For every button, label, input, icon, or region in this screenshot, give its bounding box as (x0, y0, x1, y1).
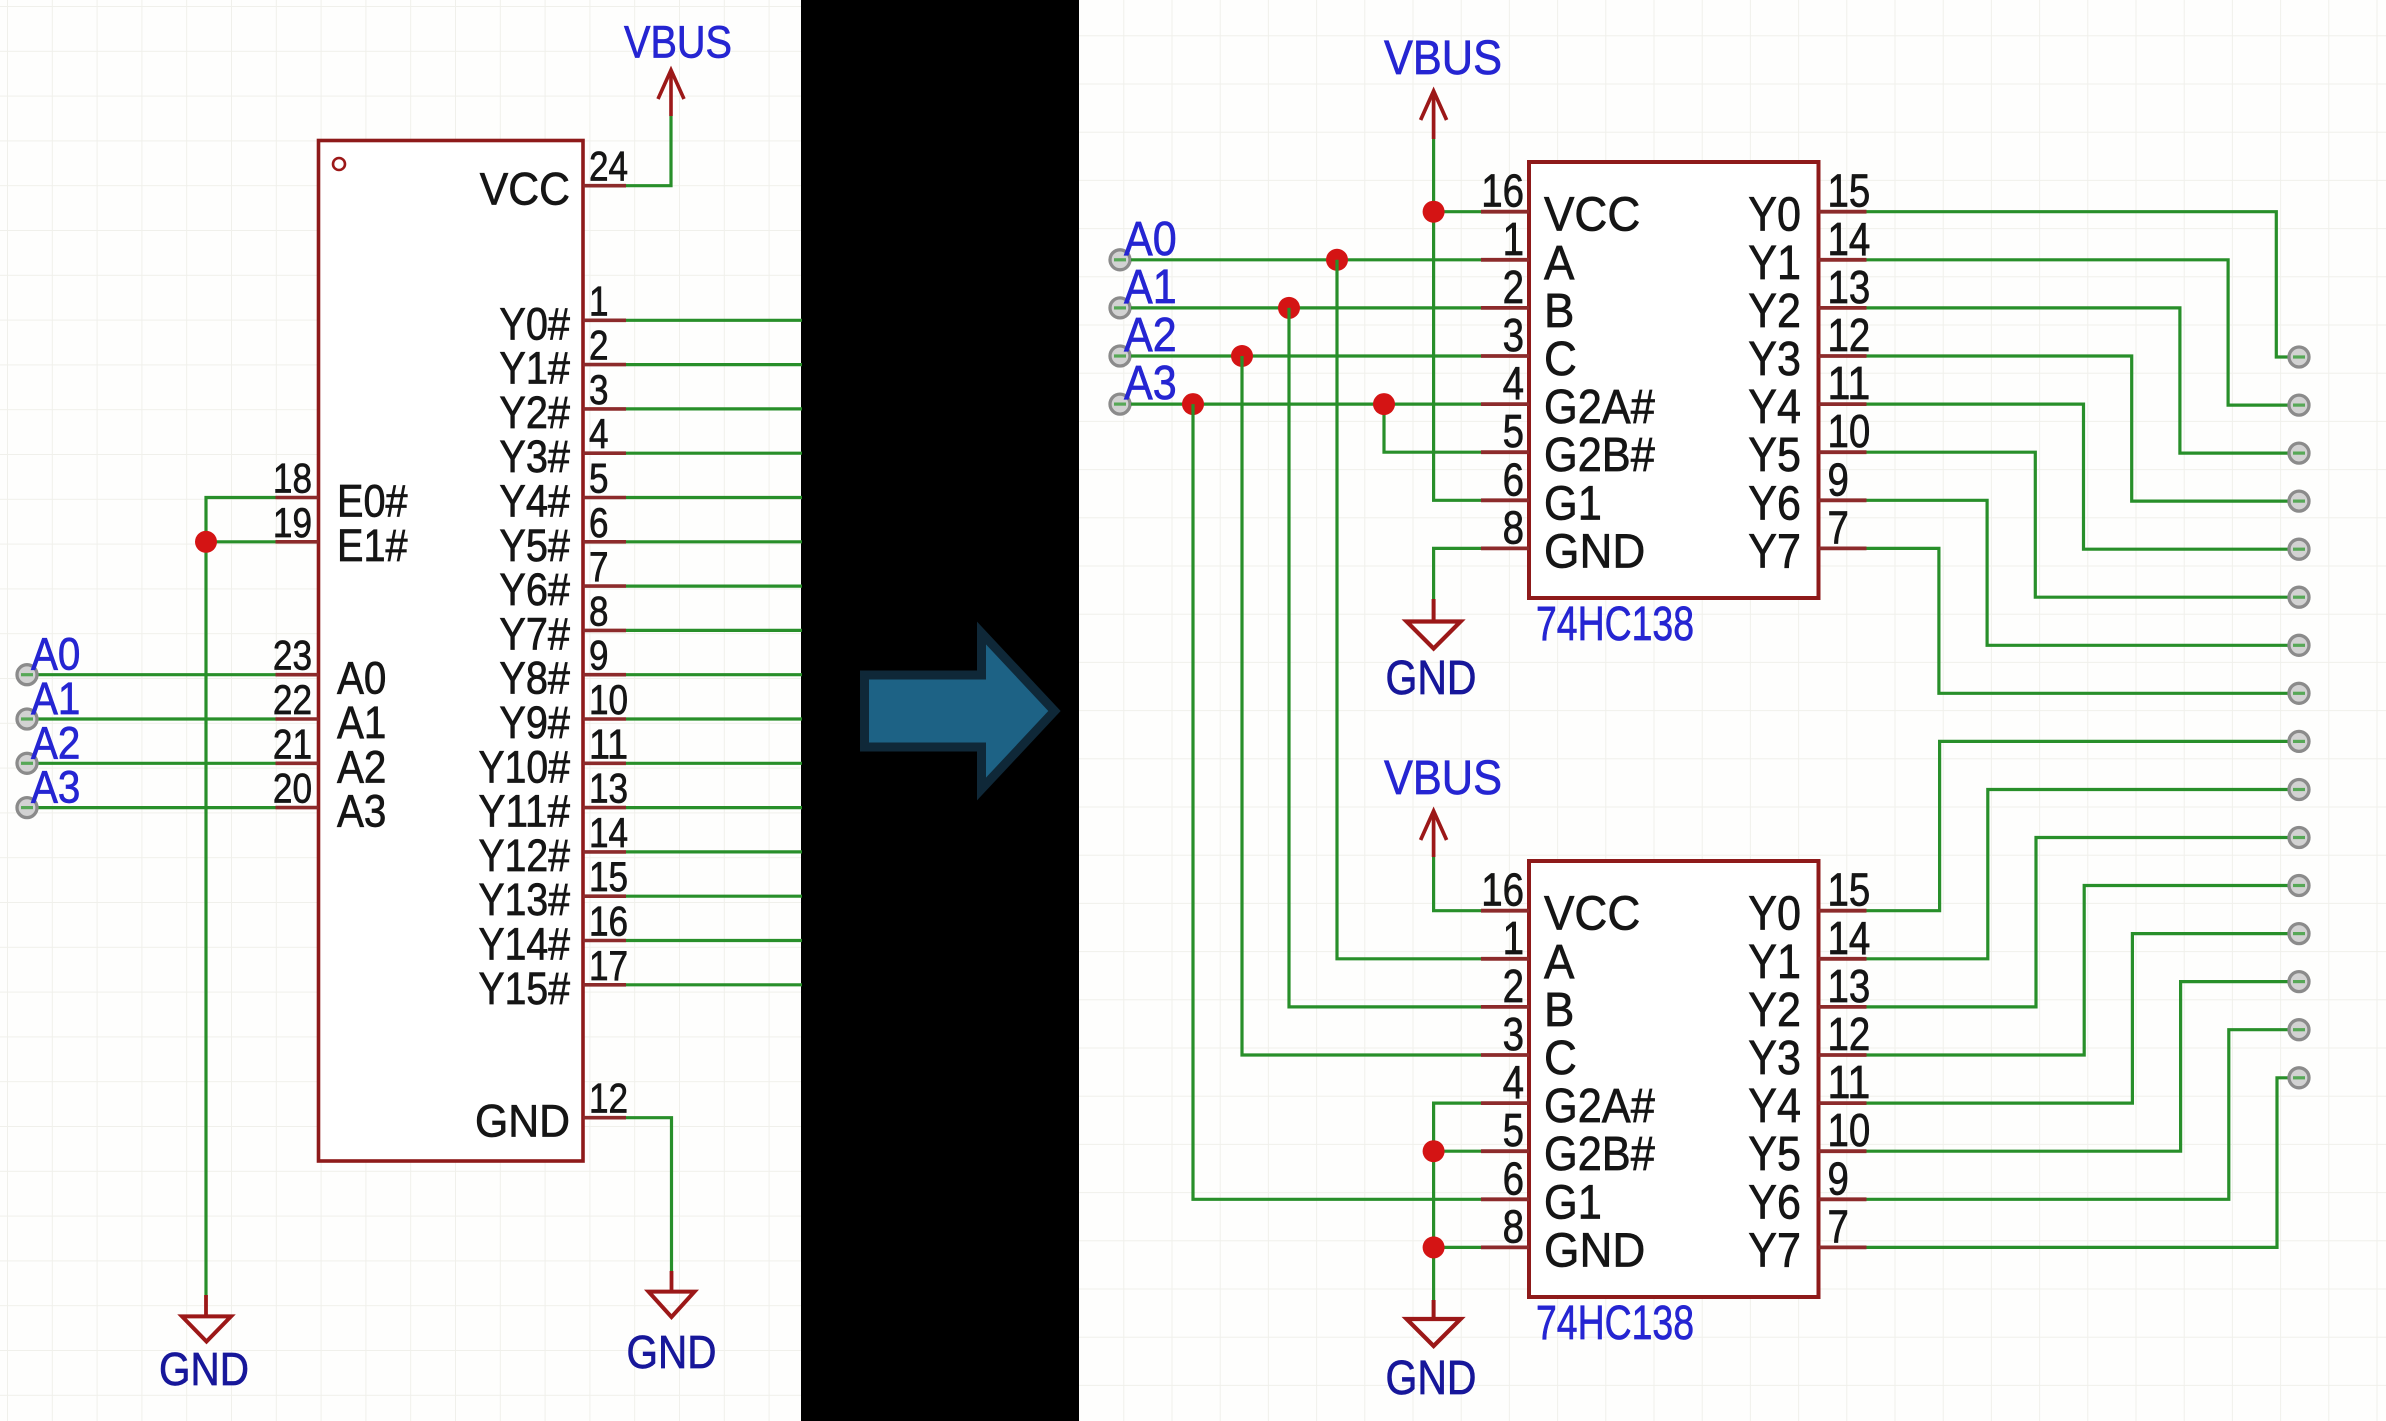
wire A3 (right) (1131, 403, 1481, 406)
U3 pin 2 B (1481, 960, 1574, 1037)
wire U2 Y7 output (1867, 548, 2289, 693)
svg-text:2: 2 (1503, 261, 1524, 313)
terminal U2 Y7 (2289, 683, 2309, 703)
svg-text:20: 20 (273, 765, 312, 812)
U2 pin 10 Y5 (1748, 405, 1870, 482)
svg-text:G2B#: G2B# (1544, 1128, 1655, 1181)
pin 9 Y8# (499, 632, 626, 704)
wire Y9# (626, 717, 802, 720)
wire Y11# (626, 806, 802, 809)
terminal U3 Y0 (2289, 731, 2309, 751)
terminal U3 Y4 (2289, 924, 2309, 944)
wire A0 to U3 (1337, 260, 1481, 959)
svg-text:13: 13 (1828, 960, 1871, 1012)
svg-text:10: 10 (1828, 405, 1871, 457)
U3 pin 10 Y5 (1748, 1104, 1870, 1181)
svg-text:VBUS: VBUS (624, 17, 732, 68)
wire A0 (right) (1131, 258, 1481, 261)
U3 pin 1 A (1481, 912, 1574, 989)
wire U3 Y2 output (1867, 838, 2289, 1007)
svg-text:Y3: Y3 (1748, 1032, 1801, 1085)
svg-text:24: 24 (589, 143, 628, 190)
svg-text:Y0: Y0 (1748, 888, 1801, 941)
U2 pin 15 Y0 (1748, 165, 1870, 242)
pin 17 Y15# (479, 942, 629, 1014)
svg-text:7: 7 (589, 543, 609, 590)
U2 pin 4 G2A# (1481, 357, 1655, 434)
svg-text:7: 7 (1828, 1200, 1849, 1252)
svg-text:Y7: Y7 (1748, 1224, 1801, 1277)
svg-text:2: 2 (1503, 960, 1524, 1012)
terminal U3 Y7 (2289, 1068, 2309, 1088)
wire A0 (left) (38, 673, 276, 676)
wire U3 Y4 output (1867, 934, 2289, 1104)
svg-text:14: 14 (589, 809, 628, 856)
terminal A1 (left) (17, 709, 37, 729)
svg-text:E1#: E1# (337, 520, 408, 571)
svg-text:1: 1 (1503, 912, 1524, 964)
wire U3 Y6 output (1867, 1030, 2289, 1200)
IC U2 74HC138 body (1529, 162, 1819, 598)
terminal A2 (left) (17, 753, 37, 773)
junction A0 (1326, 249, 1348, 271)
power symbol VBUS (top) (1384, 32, 1502, 139)
U2 pin 1 A (1481, 213, 1574, 290)
power symbol VBUS (624, 17, 732, 117)
power symbol VBUS (bottom) (1384, 752, 1502, 857)
junction A2 (1231, 345, 1253, 367)
wire A1 (left) (38, 717, 276, 720)
terminal U3 Y5 (2289, 972, 2309, 992)
svg-text:5: 5 (1503, 405, 1524, 457)
svg-text:74HC138: 74HC138 (1536, 1297, 1694, 1350)
wire Y7# (626, 629, 802, 632)
svg-text:11: 11 (589, 720, 628, 767)
svg-text:15: 15 (589, 853, 628, 900)
terminal U3 Y1 (2289, 780, 2309, 800)
wire A2 (right) (1131, 354, 1481, 357)
terminal A2 (right) (1110, 346, 1130, 366)
svg-text:A: A (1544, 237, 1574, 290)
terminal U3 Y2 (2289, 828, 2309, 848)
svg-text:4: 4 (1503, 1056, 1524, 1108)
ground symbol GND (top) (1386, 599, 1477, 705)
wire Y1# (626, 363, 802, 366)
svg-text:8: 8 (589, 587, 609, 634)
wire U2 Y1 output (1867, 260, 2289, 405)
terminal A0 (left) (17, 665, 37, 685)
wire U3 Y5 output (1867, 982, 2289, 1152)
svg-text:10: 10 (1828, 1104, 1871, 1156)
U2 pin 2 B (1481, 261, 1574, 338)
wire Y12# (626, 850, 802, 853)
wire U2 Y3 output (1867, 356, 2289, 501)
wire A1 (right) (1131, 306, 1481, 309)
junction U3 G2B# (1423, 1140, 1445, 1162)
pin 18 E0# (273, 455, 408, 527)
pin 6 Y5# (499, 499, 626, 571)
wire U3 Y3 output (1867, 886, 2289, 1056)
svg-text:18: 18 (273, 455, 312, 502)
wire Y8# (626, 673, 802, 676)
svg-text:13: 13 (589, 765, 628, 812)
svg-text:8: 8 (1503, 501, 1524, 553)
svg-text:A2: A2 (1124, 309, 1177, 362)
U2 pin 12 Y3 (1748, 309, 1870, 386)
U2 pin 14 Y1 (1748, 213, 1870, 290)
pin 3 Y2# (499, 366, 626, 438)
svg-text:A3: A3 (337, 786, 386, 837)
U3 pin 7 Y7 (1748, 1200, 1866, 1277)
U3 pin 5 G2B# (1481, 1104, 1655, 1181)
wire E1# (206, 540, 276, 543)
U3 pin 9 Y6 (1748, 1152, 1866, 1229)
U3 pin 13 Y2 (1748, 960, 1870, 1037)
wire Y3# (626, 452, 802, 455)
wire U2 Y0 output (1867, 212, 2289, 357)
pin 7 Y6# (499, 543, 626, 615)
wire E0# to ground rail (206, 498, 276, 1298)
wire VBUS to U2 VCC and G1 (1434, 139, 1481, 500)
svg-text:14: 14 (1828, 912, 1871, 964)
pin 11 Y10# (479, 720, 629, 792)
U2 pin 7 Y7 (1748, 501, 1866, 578)
pin 21 A2 (273, 720, 387, 792)
U3 pin 3 C (1481, 1008, 1577, 1085)
wire Y5# (626, 540, 802, 543)
svg-text:Y6: Y6 (1748, 1176, 1801, 1229)
separator band (801, 0, 1079, 1421)
wire U3 Y0 output (1867, 741, 2289, 910)
U3 pin 15 Y0 (1748, 864, 1870, 941)
terminal U2 Y1 (2289, 395, 2309, 415)
svg-text:VBUS: VBUS (1384, 752, 1502, 805)
svg-text:GND: GND (627, 1326, 717, 1378)
terminal U2 Y4 (2289, 539, 2309, 559)
junction A1 (1278, 297, 1300, 319)
pin 15 Y13# (479, 853, 629, 925)
svg-text:9: 9 (1828, 453, 1849, 505)
wire Y4# (626, 496, 802, 499)
svg-text:5: 5 (1503, 1104, 1524, 1156)
ground symbol GND (bottom) (1386, 1300, 1477, 1405)
svg-text:A0: A0 (1124, 213, 1177, 266)
pin 13 Y11# (479, 765, 629, 837)
terminal A3 (left) (17, 798, 37, 818)
svg-text:G2B#: G2B# (1544, 429, 1655, 482)
U3 pin 16 VCC (1481, 864, 1640, 941)
svg-text:13: 13 (1828, 261, 1871, 313)
junction VBUS/VCC (1423, 201, 1445, 223)
wire A3 (left) (38, 806, 276, 809)
svg-text:16: 16 (1481, 864, 1524, 916)
wire U2 Y2 output (1867, 308, 2289, 453)
pin 14 Y12# (479, 809, 629, 881)
svg-text:Y3: Y3 (1748, 333, 1801, 386)
svg-text:6: 6 (1503, 453, 1524, 505)
svg-text:GND: GND (475, 1096, 570, 1147)
wire U3 G2A#/G2B#/GND to ground (1434, 1103, 1481, 1300)
terminal U2 Y6 (2289, 635, 2309, 655)
svg-text:Y4: Y4 (1748, 381, 1801, 434)
wire Y2# (626, 407, 802, 410)
svg-text:16: 16 (589, 898, 628, 945)
wire U3 Y7 output (1867, 1078, 2289, 1248)
junction U3 GND (1423, 1236, 1445, 1258)
svg-text:12: 12 (1828, 309, 1871, 361)
terminal A1 (right) (1110, 298, 1130, 318)
terminal U3 Y6 (2289, 1020, 2309, 1040)
svg-text:3: 3 (1503, 1008, 1524, 1060)
wire U2 G2B# to A3 (1384, 404, 1481, 452)
svg-text:GND: GND (1386, 652, 1477, 705)
wire VCC to VBUS (626, 116, 671, 186)
svg-text:A3: A3 (1124, 357, 1177, 410)
svg-text:2: 2 (589, 322, 609, 369)
junction E1# (195, 531, 217, 553)
terminal A0 (right) (1110, 250, 1130, 270)
svg-text:6: 6 (1503, 1152, 1524, 1204)
svg-text:23: 23 (273, 632, 312, 679)
pin 22 A1 (273, 676, 387, 748)
svg-text:16: 16 (1481, 165, 1524, 217)
svg-text:GND: GND (1386, 1352, 1477, 1405)
svg-text:14: 14 (1828, 213, 1871, 265)
U3 pin 12 Y3 (1748, 1008, 1870, 1085)
pin 2 Y1# (499, 322, 626, 394)
wire U2 Y6 output (1867, 500, 2289, 645)
svg-text:Y2: Y2 (1748, 984, 1801, 1037)
U2 pin 8 GND (1481, 501, 1645, 578)
svg-text:Y5: Y5 (1748, 429, 1801, 482)
svg-text:G2A#: G2A# (1544, 1080, 1655, 1133)
wire A2 to U3 (1242, 356, 1481, 1055)
svg-text:7: 7 (1828, 501, 1849, 553)
pin 24 VCC (480, 143, 628, 215)
pin 19 E1# (273, 499, 408, 571)
svg-text:Y1: Y1 (1748, 237, 1801, 290)
svg-text:12: 12 (589, 1075, 628, 1122)
svg-text:VCC: VCC (1544, 189, 1640, 242)
svg-text:21: 21 (273, 720, 312, 767)
svg-text:C: C (1544, 1032, 1577, 1085)
svg-text:G1: G1 (1544, 1176, 1602, 1229)
U3 pin 4 G2A# (1481, 1056, 1655, 1133)
svg-text:1: 1 (589, 277, 609, 324)
svg-text:B: B (1544, 285, 1574, 338)
IC U3 74HC138 body (1529, 861, 1819, 1297)
pin 20 A3 (273, 765, 387, 837)
U2 pin 11 Y4 (1748, 357, 1870, 434)
svg-text:10: 10 (589, 676, 628, 723)
wire U2 Y5 output (1867, 452, 2289, 597)
svg-text:GND: GND (159, 1343, 249, 1395)
wire VBUS to U3 VCC (1434, 857, 1481, 911)
pin 10 Y9# (499, 676, 628, 748)
wire Y10# (626, 762, 802, 765)
terminal U2 Y0 (2289, 347, 2309, 367)
wire U2 GND pin 8 (1434, 548, 1481, 599)
svg-text:Y1: Y1 (1748, 936, 1801, 989)
pin 16 Y14# (479, 898, 629, 970)
svg-text:Y2: Y2 (1748, 285, 1801, 338)
terminal U3 Y3 (2289, 876, 2309, 896)
svg-text:8: 8 (1503, 1200, 1524, 1252)
svg-text:A1: A1 (1124, 261, 1177, 314)
svg-text:12: 12 (1828, 1008, 1871, 1060)
wire Y14# (626, 939, 802, 942)
U2 pin 16 VCC (1481, 165, 1640, 242)
svg-text:A: A (1544, 936, 1574, 989)
svg-text:22: 22 (273, 676, 312, 723)
svg-text:3: 3 (1503, 309, 1524, 361)
U3 pin 11 Y4 (1748, 1056, 1870, 1133)
svg-text:Y15#: Y15# (479, 963, 571, 1014)
svg-text:1: 1 (1503, 213, 1524, 265)
U2 pin 5 G2B# (1481, 405, 1655, 482)
svg-text:17: 17 (589, 942, 628, 989)
svg-text:G2A#: G2A# (1544, 381, 1655, 434)
ground symbol GND (right of U1) (627, 1271, 717, 1378)
svg-text:11: 11 (1828, 357, 1871, 409)
wire Y6# (626, 584, 802, 587)
svg-text:3: 3 (589, 366, 609, 413)
wire U2 Y4 output (1867, 404, 2289, 549)
svg-text:15: 15 (1828, 165, 1871, 217)
svg-text:A3: A3 (31, 762, 80, 813)
terminal U2 Y5 (2289, 587, 2309, 607)
svg-text:B: B (1544, 984, 1574, 1037)
ground symbol GND (bottom left) (159, 1295, 249, 1395)
svg-text:Y7: Y7 (1748, 525, 1801, 578)
svg-text:4: 4 (589, 410, 609, 457)
wire A1 to U3 (1289, 308, 1481, 1007)
svg-text:74HC138: 74HC138 (1536, 598, 1694, 651)
svg-text:VCC: VCC (1544, 888, 1640, 941)
svg-text:5: 5 (589, 455, 609, 502)
U2 pin 3 C (1481, 309, 1577, 386)
transition arrow (865, 633, 1055, 789)
pin 4 Y3# (499, 410, 626, 482)
wire Y15# (626, 983, 802, 986)
svg-text:GND: GND (1544, 525, 1645, 578)
wire Y0# (626, 319, 802, 322)
wire GND pin 12 (626, 1118, 672, 1271)
svg-text:9: 9 (589, 632, 609, 679)
svg-text:G1: G1 (1544, 477, 1602, 530)
svg-text:19: 19 (273, 499, 312, 546)
IC U1 24-pin 4-to-16 line decoder body (319, 141, 584, 1162)
wire A3 to U3 (1193, 404, 1481, 1199)
U3 pin 8 GND (1481, 1200, 1645, 1277)
terminal U2 Y3 (2289, 491, 2309, 511)
wire Y13# (626, 895, 802, 898)
U2 pin 9 Y6 (1748, 453, 1866, 530)
svg-text:11: 11 (1828, 1056, 1871, 1108)
U3 pin 14 Y1 (1748, 912, 1870, 989)
pin 23 A0 (273, 632, 387, 704)
terminal A3 (right) (1110, 394, 1130, 414)
svg-text:C: C (1544, 333, 1577, 386)
svg-text:VBUS: VBUS (1384, 32, 1502, 85)
svg-text:VCC: VCC (480, 164, 570, 215)
wire A2 (left) (38, 762, 276, 765)
wire U3 Y1 output (1867, 790, 2289, 959)
U2 pin 6 G1 (1481, 453, 1602, 530)
pin 1 Y0# (499, 277, 626, 349)
svg-text:Y6: Y6 (1748, 477, 1801, 530)
svg-text:15: 15 (1828, 864, 1871, 916)
pin 5 Y4# (499, 455, 626, 527)
svg-text:Y0: Y0 (1748, 189, 1801, 242)
junction A3 (1182, 393, 1204, 415)
svg-text:4: 4 (1503, 357, 1524, 409)
svg-text:9: 9 (1828, 1152, 1849, 1204)
svg-text:GND: GND (1544, 1224, 1645, 1277)
pin 8 Y7# (499, 587, 626, 659)
U2 pin 13 Y2 (1748, 261, 1870, 338)
U3 pin 6 G1 (1481, 1152, 1602, 1229)
svg-text:Y4: Y4 (1748, 1080, 1801, 1133)
svg-text:6: 6 (589, 499, 609, 546)
svg-text:Y5: Y5 (1748, 1128, 1801, 1181)
junction A3/G2B# (1373, 393, 1395, 415)
terminal U2 Y2 (2289, 443, 2309, 463)
pin 12 GND (475, 1075, 628, 1147)
